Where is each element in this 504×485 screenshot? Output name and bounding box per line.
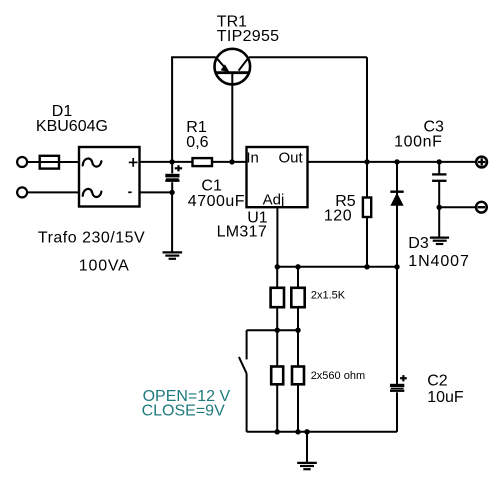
junction bbox=[304, 429, 309, 434]
resistor R1 bbox=[193, 158, 213, 166]
wire out rail bbox=[308, 161, 476, 163]
junction bbox=[295, 264, 300, 269]
junction bbox=[295, 429, 300, 434]
resistor R5 bbox=[363, 162, 371, 267]
junction bbox=[275, 264, 280, 269]
wire emitter left vertical bbox=[171, 57, 173, 162]
wire ground stub bbox=[306, 432, 308, 463]
junction bbox=[169, 159, 174, 164]
wire ground stub bbox=[438, 207, 440, 236]
input terminal (top) bbox=[17, 157, 27, 167]
transistor TR1 bbox=[215, 49, 251, 85]
svg-text:In: In bbox=[246, 149, 259, 166]
wire + rail bbox=[140, 161, 247, 163]
svg-text:CLOSE=9V: CLOSE=9V bbox=[142, 402, 225, 419]
wire adj vertical bbox=[276, 207, 278, 267]
wire adj rail bbox=[277, 266, 397, 268]
resistor 560 left bbox=[271, 330, 283, 432]
wire collector right vertical bbox=[366, 57, 368, 162]
junction bbox=[364, 264, 369, 269]
svg-text:0,6: 0,6 bbox=[186, 134, 208, 151]
junction bbox=[275, 429, 280, 434]
input terminal (bottom) bbox=[17, 187, 27, 197]
resistor 1.5K left bbox=[271, 267, 284, 330]
svg-text:2x1.5K: 2x1.5K bbox=[311, 289, 346, 301]
svg-text:D3: D3 bbox=[408, 235, 429, 252]
svg-text:Adj: Adj bbox=[263, 191, 285, 208]
junction bbox=[275, 328, 280, 333]
svg-text:100VA: 100VA bbox=[79, 258, 130, 275]
junction bbox=[364, 159, 369, 164]
junction bbox=[394, 159, 399, 164]
svg-text:Out: Out bbox=[279, 150, 304, 167]
resistor 560 right bbox=[292, 330, 304, 432]
svg-text:1N4007: 1N4007 bbox=[408, 253, 469, 270]
capacitor C2 bbox=[390, 267, 407, 432]
wire base bbox=[231, 73, 233, 162]
wire top right bbox=[249, 56, 367, 58]
junction bbox=[394, 264, 399, 269]
svg-text:10uF: 10uF bbox=[427, 389, 464, 406]
junction bbox=[437, 205, 442, 210]
wire bottom rail bbox=[247, 431, 397, 433]
resistor 1.5K right bbox=[291, 267, 304, 330]
wire minus rail bbox=[439, 206, 476, 208]
regulator U1 LM317 bbox=[246, 147, 307, 208]
diode D3 bbox=[390, 162, 403, 267]
wire mid rail bbox=[247, 329, 298, 331]
wire bbox=[28, 161, 80, 163]
svg-text:KBU604G: KBU604G bbox=[36, 118, 108, 135]
switch S1 bbox=[239, 330, 247, 432]
wire to transformer ground bbox=[171, 192, 173, 252]
svg-text:4700uF: 4700uF bbox=[188, 193, 245, 210]
junction bbox=[229, 159, 234, 164]
ground (transformer) bbox=[163, 252, 183, 258]
svg-text:120: 120 bbox=[324, 207, 352, 224]
junction bbox=[437, 159, 442, 164]
output terminal - bbox=[476, 202, 487, 213]
svg-text:Trafo 230/15V: Trafo 230/15V bbox=[38, 230, 145, 247]
output terminal + bbox=[476, 157, 487, 168]
svg-text:LM317: LM317 bbox=[217, 224, 267, 241]
junction bbox=[295, 328, 300, 333]
svg-text:C2: C2 bbox=[427, 373, 448, 390]
svg-text:TIP2955: TIP2955 bbox=[217, 28, 280, 45]
capacitor C1 bbox=[165, 162, 182, 193]
junction bbox=[169, 190, 174, 195]
ground (output) bbox=[430, 238, 449, 244]
wire - rail bbox=[140, 191, 173, 193]
fuse F1 bbox=[40, 156, 59, 169]
capacitor C3 bbox=[432, 162, 446, 207]
svg-text:2x560 ohm: 2x560 ohm bbox=[311, 370, 365, 382]
ground (main) bbox=[297, 463, 317, 469]
wire top left bbox=[171, 56, 216, 58]
bridge rectifier D1 bbox=[79, 147, 140, 207]
wire bbox=[28, 191, 80, 193]
svg-text:100nF: 100nF bbox=[394, 134, 442, 151]
